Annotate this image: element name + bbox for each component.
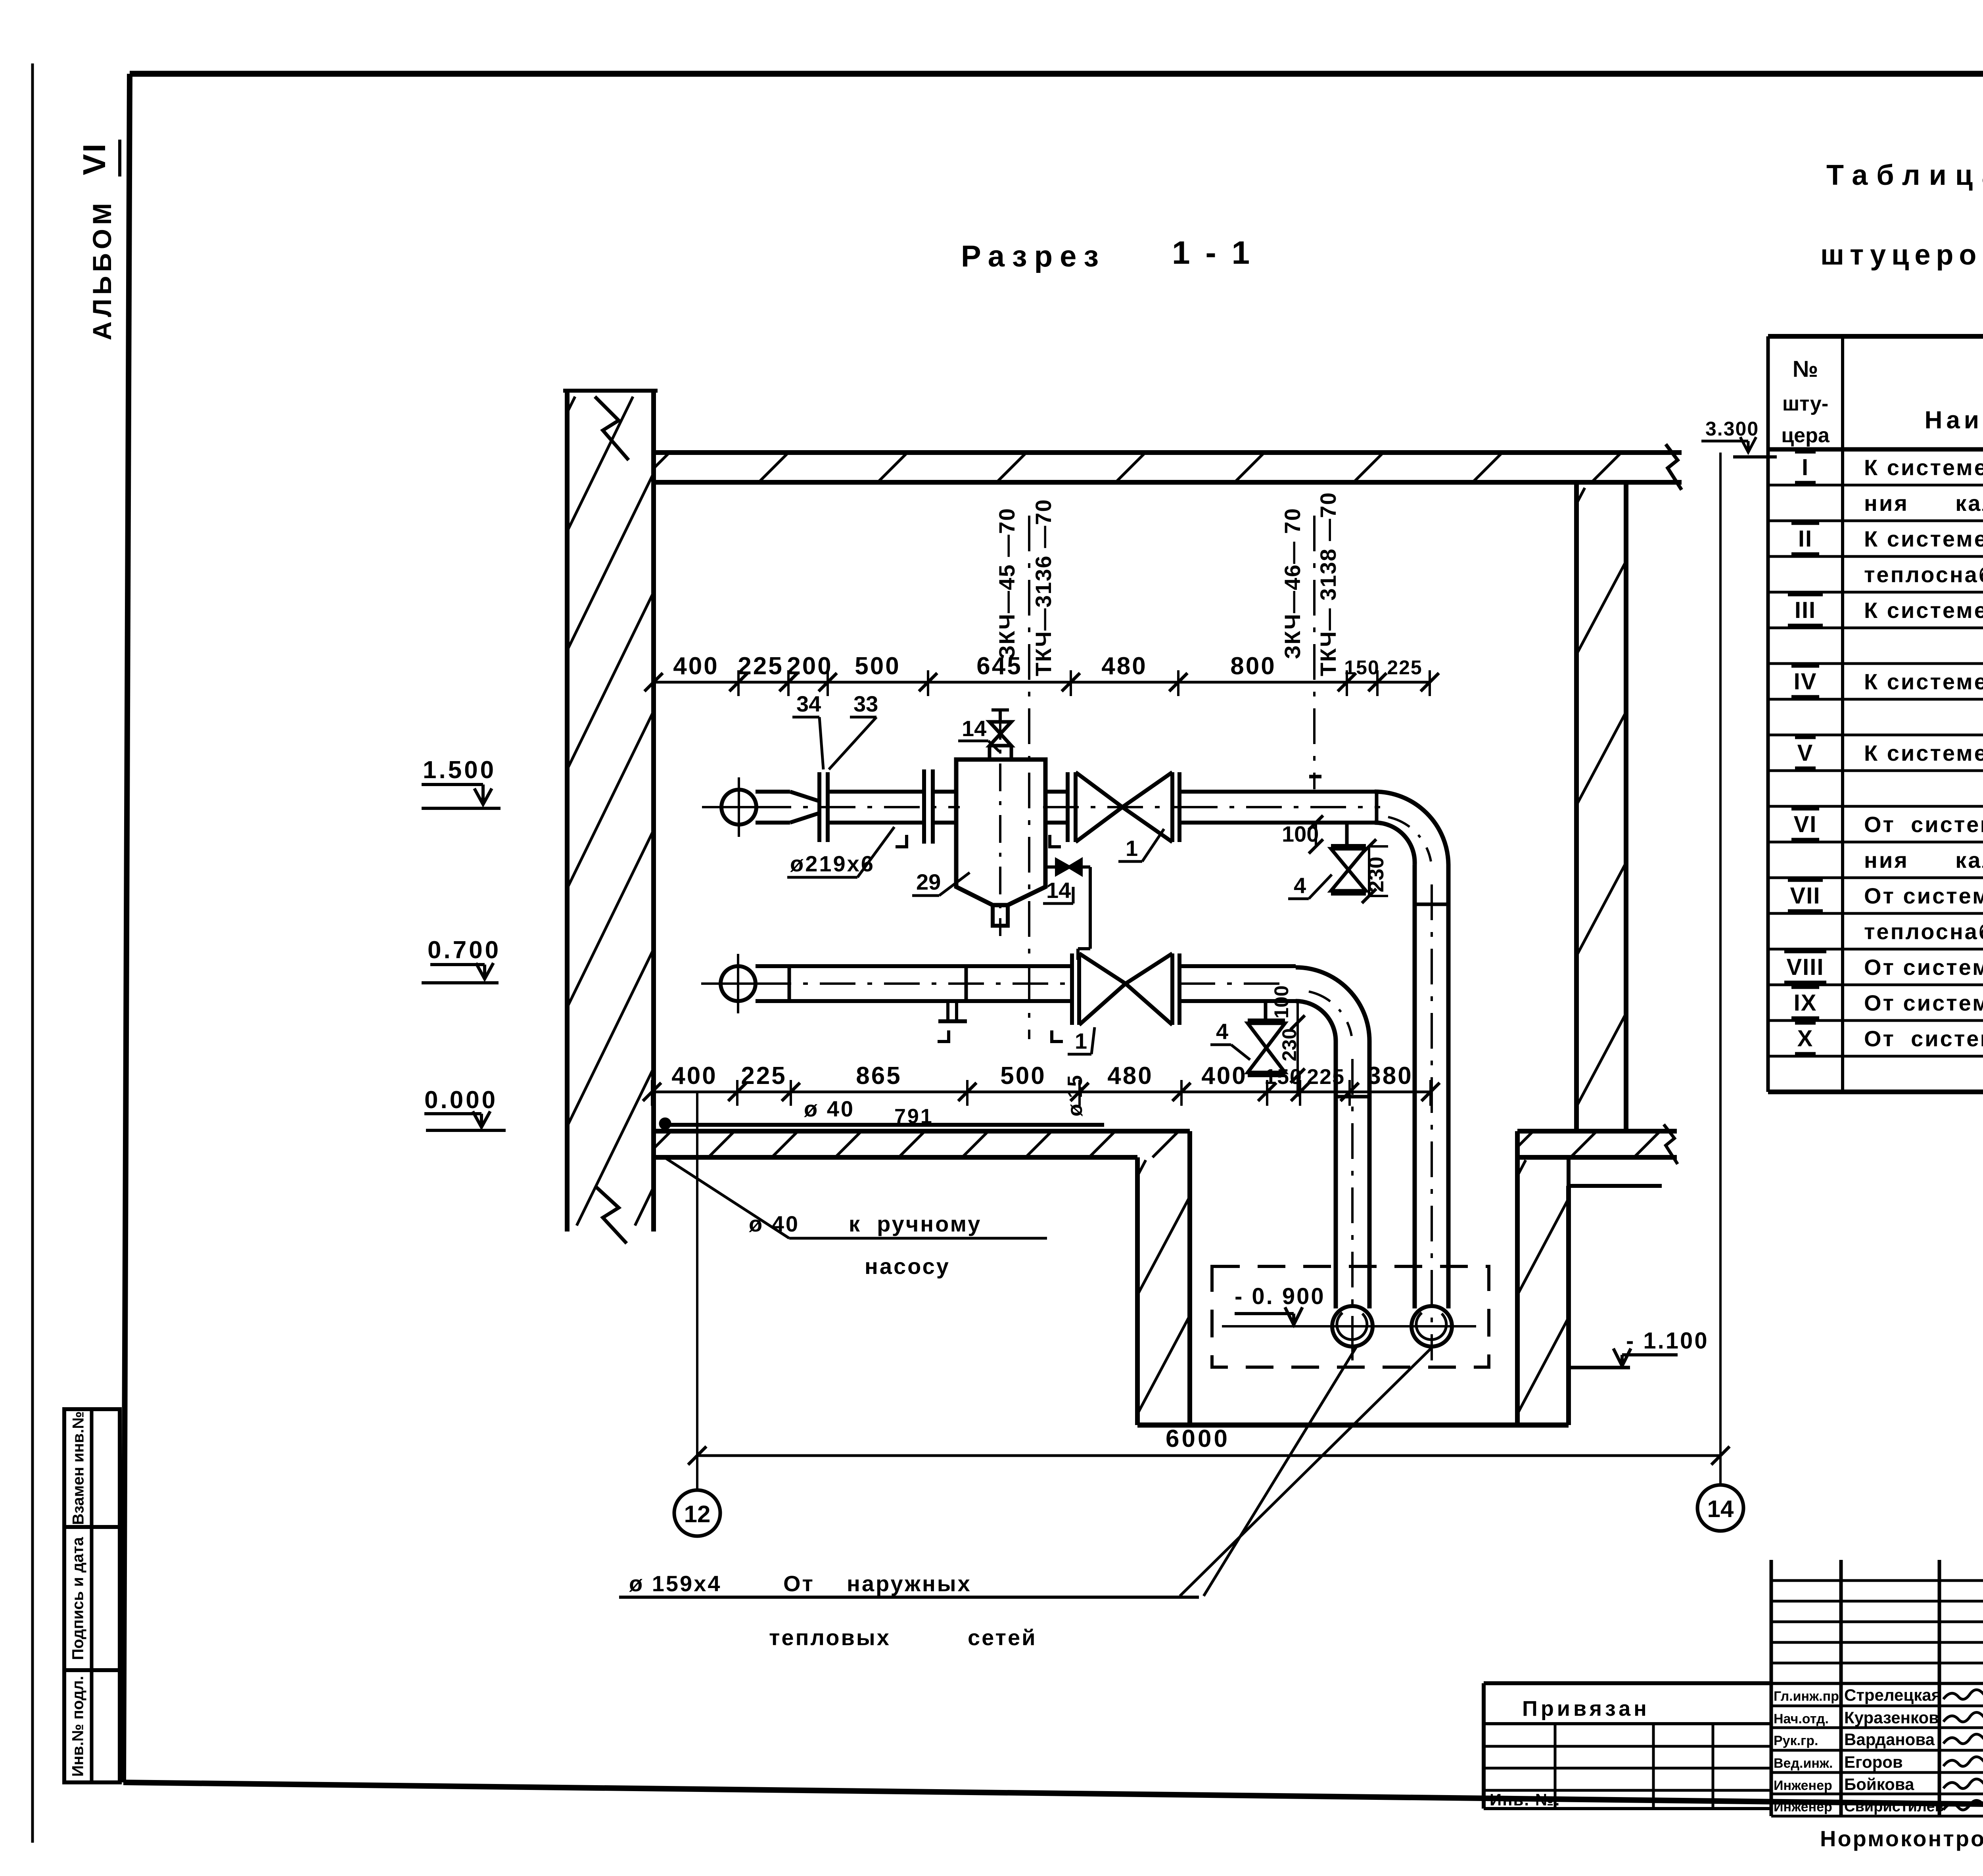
svg-text:насосу: насосу <box>865 1254 950 1279</box>
svg-text:4: 4 <box>1216 1019 1228 1044</box>
svg-text:К системе теплоснабже-: К системе теплоснабже- <box>1864 455 1983 480</box>
svg-text:1: 1 <box>1126 836 1138 861</box>
svg-text:480: 480 <box>1101 652 1147 680</box>
svg-text:X: X <box>1797 1026 1814 1051</box>
svg-text:400: 400 <box>671 1062 717 1090</box>
svg-text:Вед.инж.: Вед.инж. <box>1774 1756 1833 1771</box>
svg-text:V: V <box>1797 740 1814 766</box>
svg-text:Инженер: Инженер <box>1774 1799 1832 1815</box>
svg-text:Наименование: Наименование <box>1925 407 1983 434</box>
svg-text:200: 200 <box>787 652 832 680</box>
svg-text:500: 500 <box>1000 1062 1046 1090</box>
svg-text:Взамен инв.№: Взамен инв.№ <box>70 1411 87 1525</box>
svg-text:645: 645 <box>976 652 1022 680</box>
svg-text:к ручному: к ручному <box>849 1211 982 1236</box>
svg-text:Куразенков: Куразенков <box>1844 1708 1939 1727</box>
svg-text:34: 34 <box>796 691 821 716</box>
svg-text:Варданова: Варданова <box>1844 1730 1935 1749</box>
svg-text:1 - 1: 1 - 1 <box>1172 235 1253 271</box>
svg-text:I: I <box>1802 455 1809 480</box>
svg-text:791: 791 <box>894 1105 934 1128</box>
svg-text:800: 800 <box>1230 652 1276 680</box>
svg-text:Егоров: Егоров <box>1844 1753 1903 1771</box>
svg-text:От системы теплоснабже-: От системы теплоснабже- <box>1864 812 1983 837</box>
svg-text:II: II <box>1798 526 1812 552</box>
svg-text:- 1.100: - 1.100 <box>1626 1328 1709 1354</box>
svg-text:225: 225 <box>1387 656 1422 679</box>
svg-text:ния калориферов: ния калориферов <box>1864 848 1983 873</box>
svg-text:100: 100 <box>1270 986 1293 1019</box>
svg-text:Рук.гр.: Рук.гр. <box>1774 1733 1818 1748</box>
svg-text:От системы отопления №2: От системы отопления №2 <box>1864 990 1983 1015</box>
svg-text:3.300: 3.300 <box>1705 418 1759 440</box>
svg-text:ø 159х4: ø 159х4 <box>629 1571 722 1596</box>
svg-text:IV: IV <box>1794 669 1817 694</box>
svg-text:ø 40: ø 40 <box>804 1096 855 1121</box>
svg-text:ЗКЧ—46— 70: ЗКЧ—46— 70 <box>1280 508 1305 659</box>
svg-text:225: 225 <box>1307 1065 1345 1089</box>
svg-text:480: 480 <box>1107 1062 1153 1090</box>
svg-text:VIII: VIII <box>1786 954 1824 980</box>
svg-text:ø 40: ø 40 <box>749 1211 800 1236</box>
svg-text:теплоснабжения подвала: теплоснабжения подвала <box>1864 919 1983 944</box>
svg-text:Инв. №:: Инв. №: <box>1490 1790 1561 1809</box>
svg-text:От системы отопления №1: От системы отопления №1 <box>1864 955 1983 980</box>
svg-text:0.000: 0.000 <box>424 1086 498 1114</box>
svg-text:865: 865 <box>856 1062 901 1090</box>
svg-text:VII: VII <box>1790 883 1821 909</box>
svg-text:К системе отопления № 2: К системе отопления № 2 <box>1864 740 1983 765</box>
svg-text:штуцеров: штуцеров <box>1820 239 1983 271</box>
svg-text:500: 500 <box>855 652 900 680</box>
svg-text:ния калориферов: ния калориферов <box>1864 491 1983 516</box>
svg-text:сетей: сетей <box>968 1625 1037 1650</box>
svg-text:0.700: 0.700 <box>428 936 501 964</box>
svg-text:наружных: наружных <box>847 1571 972 1596</box>
svg-text:VI: VI <box>77 142 112 175</box>
svg-text:380: 380 <box>1367 1062 1413 1090</box>
svg-text:6000: 6000 <box>1166 1425 1230 1452</box>
svg-text:VI: VI <box>1794 811 1817 837</box>
svg-text:Нормоконтролер: Нормоконтролер <box>1820 1826 1983 1851</box>
svg-text:225: 225 <box>738 652 783 680</box>
svg-text:Привязан: Привязан <box>1522 1697 1650 1721</box>
svg-text:ТКЧ—3136 —70: ТКЧ—3136 —70 <box>1031 499 1056 676</box>
svg-text:К системе отопления №2: К системе отопления №2 <box>1864 669 1983 694</box>
svg-text:14: 14 <box>1707 1496 1734 1522</box>
svg-text:Таблица: Таблица <box>1826 159 1983 191</box>
svg-text:Свиристилев: Свиристилев <box>1844 1798 1944 1815</box>
svg-text:12: 12 <box>684 1501 711 1527</box>
svg-text:Бойкова: Бойкова <box>1844 1775 1914 1794</box>
svg-text:150: 150 <box>1344 656 1379 679</box>
svg-text:225: 225 <box>741 1062 786 1090</box>
svg-text:1: 1 <box>1075 1028 1087 1053</box>
svg-text:№: № <box>1793 356 1818 382</box>
svg-text:цера: цера <box>1781 424 1830 447</box>
svg-text:От системы отопления и: От системы отопления и <box>1864 883 1983 908</box>
svg-text:От системы отопления №2: От системы отопления №2 <box>1864 1026 1983 1051</box>
svg-text:Подпись и дата: Подпись и дата <box>69 1537 87 1660</box>
svg-text:АЛЬБОМ: АЛЬБОМ <box>87 199 117 340</box>
svg-text:Гл.инж.пр: Гл.инж.пр <box>1774 1689 1839 1704</box>
svg-text:От: От <box>783 1571 815 1596</box>
svg-text:4: 4 <box>1294 873 1306 898</box>
svg-text:Инв.№ подл.: Инв.№ подл. <box>69 1676 87 1776</box>
svg-text:К системе отопления №1: К системе отопления №1 <box>1864 598 1983 623</box>
svg-text:29: 29 <box>916 869 941 894</box>
svg-text:1.500: 1.500 <box>423 756 496 784</box>
svg-text:- 0. 900: - 0. 900 <box>1235 1283 1325 1309</box>
svg-text:14: 14 <box>1046 878 1071 903</box>
svg-text:Стрелецкая: Стрелецкая <box>1844 1686 1941 1704</box>
svg-text:IX: IX <box>1794 990 1817 1016</box>
svg-text:Разрез: Разрез <box>961 240 1106 273</box>
svg-text:ЗКЧ—45 —70: ЗКЧ—45 —70 <box>994 508 1019 659</box>
svg-text:ø 15: ø 15 <box>1064 1075 1087 1116</box>
svg-text:теплоснабжения подвала: теплоснабжения подвала <box>1864 562 1983 587</box>
svg-text:III: III <box>1795 597 1816 623</box>
svg-text:230: 230 <box>1278 1028 1300 1061</box>
svg-text:ТКЧ— 3138 —70: ТКЧ— 3138 —70 <box>1316 492 1341 676</box>
svg-text:14: 14 <box>962 716 986 741</box>
svg-text:К системе отопления и: К системе отопления и <box>1864 526 1983 551</box>
svg-text:тепловых: тепловых <box>769 1625 891 1650</box>
svg-text:шту-: шту- <box>1782 392 1828 415</box>
svg-text:33: 33 <box>853 691 878 716</box>
svg-text:Нач.отд.: Нач.отд. <box>1774 1711 1829 1726</box>
svg-text:400: 400 <box>1201 1062 1247 1090</box>
svg-text:400: 400 <box>673 652 719 680</box>
svg-text:Инженер: Инженер <box>1774 1778 1832 1793</box>
